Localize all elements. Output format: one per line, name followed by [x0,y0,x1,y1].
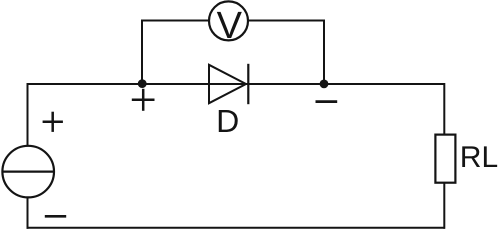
wire right vertical lower [443,182,445,229]
node B minus sign [316,100,338,103]
wire right vertical upper [443,83,445,136]
node A plus sign [132,89,155,111]
node A junction dot [138,79,147,88]
resistor RL body [435,135,455,183]
wire main horizontal node A to node B [27,83,446,85]
wire top loop right vertical [323,20,325,85]
wire left vertical upper [27,83,29,147]
source plus sign [43,112,63,132]
wire left vertical lower [27,197,29,229]
voltmeter label V [217,12,242,38]
wire bottom horizontal [27,227,446,229]
source minus sign [45,215,66,218]
wire top loop left vertical [141,20,143,85]
voltmeter U1 circle [209,1,248,40]
wire top loop horizontal left of voltmeter [141,20,209,22]
node B junction dot [320,80,329,89]
source V1 chord line [2,171,54,173]
wire top loop horizontal right of voltmeter [249,20,326,22]
diode D triangle [209,65,246,103]
resistor label RL [462,146,480,167]
diode D cathode bar [247,64,249,104]
source V1 circle [2,146,54,198]
diode label D [219,110,238,132]
